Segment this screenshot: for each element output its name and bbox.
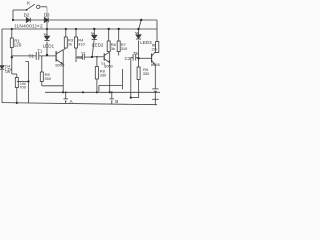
svg-text:LED2: LED2 bbox=[92, 42, 104, 47]
svg-text:1W: 1W bbox=[5, 70, 11, 74]
svg-text:T3: T3 bbox=[81, 52, 85, 56]
svg-text:150: 150 bbox=[151, 47, 157, 51]
svg-text:310: 310 bbox=[121, 46, 128, 51]
svg-text:330: 330 bbox=[100, 73, 107, 78]
svg-text:330: 330 bbox=[143, 71, 150, 76]
svg-text:D3: D3 bbox=[44, 13, 50, 18]
svg-text:120: 120 bbox=[14, 43, 22, 48]
svg-text:700: 700 bbox=[19, 85, 26, 90]
svg-text:3k: 3k bbox=[111, 46, 115, 51]
svg-text:D2: D2 bbox=[24, 13, 30, 18]
svg-text:8055: 8055 bbox=[151, 62, 160, 67]
svg-text:C3: C3 bbox=[125, 56, 131, 61]
svg-text:C1: C1 bbox=[29, 53, 35, 58]
svg-text:350: 350 bbox=[44, 76, 51, 81]
svg-text:T5: T5 bbox=[133, 51, 139, 56]
svg-text:LED3: LED3 bbox=[140, 40, 152, 45]
svg-text:8050: 8050 bbox=[55, 63, 65, 68]
svg-text:T1: T1 bbox=[37, 49, 43, 54]
svg-text:LED1: LED1 bbox=[43, 43, 55, 48]
svg-text:B: B bbox=[115, 99, 118, 104]
svg-text:2k: 2k bbox=[68, 42, 72, 47]
svg-text:310: 310 bbox=[78, 42, 85, 47]
svg-text:(1N4001)×2: (1N4001)×2 bbox=[15, 24, 43, 30]
svg-text:K: K bbox=[27, 1, 31, 6]
svg-text:8050: 8050 bbox=[104, 64, 112, 68]
